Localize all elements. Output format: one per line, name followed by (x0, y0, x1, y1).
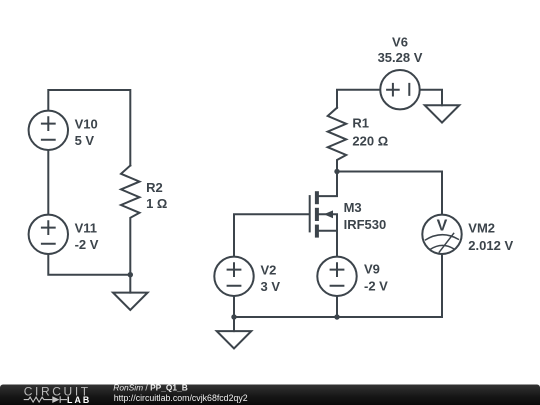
svg-text:M3: M3 (344, 200, 362, 215)
svg-text:LAB: LAB (67, 395, 91, 405)
svg-text:IRF530: IRF530 (344, 217, 387, 232)
svg-text:1 Ω: 1 Ω (146, 196, 167, 211)
svg-text:-2 V: -2 V (75, 237, 99, 252)
svg-text:V: V (437, 218, 448, 235)
svg-text:220 Ω: 220 Ω (352, 134, 388, 149)
svg-text:5 V: 5 V (75, 133, 95, 148)
svg-text:35.28 V: 35.28 V (378, 50, 423, 65)
svg-text:V6: V6 (392, 35, 408, 50)
svg-text:R1: R1 (352, 116, 369, 131)
svg-text:2.012 V: 2.012 V (468, 238, 513, 253)
svg-text:V2: V2 (261, 262, 277, 277)
svg-text:-2 V: -2 V (364, 278, 388, 293)
svg-text:V11: V11 (75, 220, 97, 235)
svg-text:V10: V10 (75, 116, 98, 131)
svg-text:RonSim / PP_Q1_B: RonSim / PP_Q1_B (113, 382, 188, 392)
svg-text:VM2: VM2 (468, 220, 495, 235)
svg-text:R2: R2 (146, 180, 163, 195)
svg-text:V9: V9 (364, 262, 380, 277)
svg-text:3 V: 3 V (261, 279, 281, 294)
svg-text:http://circuitlab.com/cvjk68fc: http://circuitlab.com/cvjk68fcd2qy2 (114, 393, 248, 403)
